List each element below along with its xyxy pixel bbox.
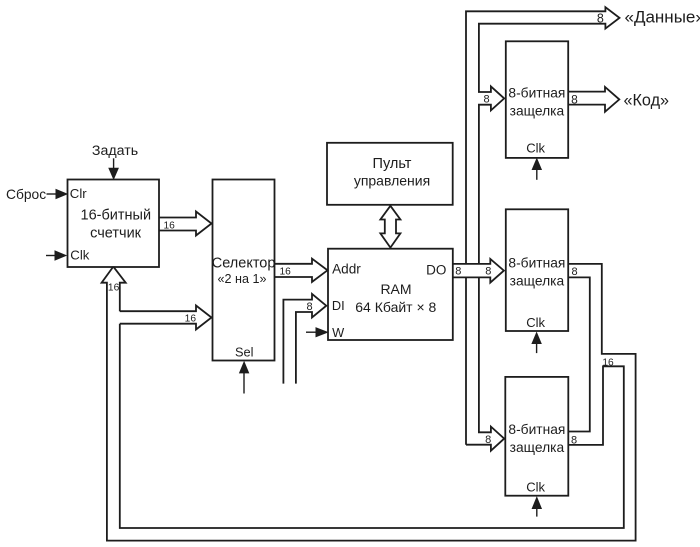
arrow Clk up into top latch <box>536 169 538 180</box>
svg-text:16: 16 <box>164 220 176 231</box>
svg-text:W: W <box>332 325 345 340</box>
bus selector to RAM Addr (16) <box>275 259 328 282</box>
svg-text:64 Кбайт × 8: 64 Кбайт × 8 <box>355 299 436 315</box>
svg-text:8: 8 <box>306 301 312 313</box>
svg-text:защелка: защелка <box>510 104 565 119</box>
bus feedback to selector (16) <box>120 306 212 330</box>
svg-text:16: 16 <box>108 283 120 294</box>
svg-text:16: 16 <box>280 267 292 278</box>
wire outer: counter up-arrow left side, bottom bus, right bus outer <box>102 264 636 541</box>
svg-text:8: 8 <box>571 266 577 278</box>
svg-text:8: 8 <box>485 434 491 446</box>
wire vertical distribution bus left side <box>466 7 620 445</box>
svg-text:Сброс: Сброс <box>6 187 46 202</box>
svg-text:«2 на 1»: «2 на 1» <box>218 272 267 286</box>
svg-text:Clk: Clk <box>526 480 545 495</box>
svg-text:8: 8 <box>485 266 491 278</box>
svg-text:8: 8 <box>571 93 578 107</box>
svg-text:Addr: Addr <box>332 261 361 276</box>
svg-text:Пульт: Пульт <box>373 156 412 172</box>
svg-text:Clr: Clr <box>70 186 87 201</box>
svg-text:Задать: Задать <box>92 143 138 159</box>
svg-text:Clk: Clk <box>70 247 89 262</box>
bus RAM DO to middle latch input (8) <box>453 259 504 283</box>
counter box (16-битный счетчик) <box>68 180 160 268</box>
latch box U3 (top 8-битная защелка) <box>506 41 568 158</box>
svg-text:«Данные»: «Данные» <box>625 7 700 26</box>
svg-text:Sel: Sel <box>235 344 254 359</box>
svg-text:8: 8 <box>597 11 604 25</box>
bus top latch output to «Код» (8) <box>568 87 619 112</box>
bidirectional hollow arrow between control panel and RAM <box>380 206 400 248</box>
svg-text:16: 16 <box>185 314 197 325</box>
svg-text:16-битный: 16-битный <box>81 208 152 224</box>
RAM box <box>328 249 453 340</box>
svg-text:8-битная: 8-битная <box>508 256 565 271</box>
svg-text:Clk: Clk <box>526 315 545 330</box>
arrow Сброс into Clr <box>47 193 58 195</box>
arrow Sel up into selector <box>243 372 245 394</box>
svg-text:DI: DI <box>332 298 345 313</box>
svg-text:8-битная: 8-битная <box>508 86 565 101</box>
arrow Clk up into bottom latch <box>536 508 538 517</box>
svg-text:защелка: защелка <box>510 440 565 455</box>
svg-text:Clk: Clk <box>526 141 545 156</box>
svg-text:8: 8 <box>571 435 577 447</box>
arrow Clk up into middle latch <box>536 343 538 353</box>
svg-text:8-битная: 8-битная <box>508 422 565 437</box>
svg-text:RAM: RAM <box>380 281 411 297</box>
svg-text:8: 8 <box>455 266 461 278</box>
arrow into RAM W <box>306 331 317 333</box>
latch box U4 (middle 8-битная защелка) <box>506 209 568 331</box>
svg-text:защелка: защелка <box>510 274 565 289</box>
svg-text:DO: DO <box>426 263 446 278</box>
wire vertical distribution bus right side to bottom latch input <box>466 277 504 450</box>
svg-text:«Код»: «Код» <box>624 91 670 109</box>
wire middle-latch lower output joining bottom latch upper output <box>568 277 590 431</box>
bus counter to selector (16) <box>159 212 212 236</box>
svg-text:Селектор: Селектор <box>212 256 276 272</box>
bus DI into RAM (8) <box>283 294 326 384</box>
svg-text:8: 8 <box>484 93 490 105</box>
svg-text:управления: управления <box>354 173 430 189</box>
latch box U5 (bottom 8-битная защелка) <box>505 377 568 496</box>
control panel box (Пульт управления) <box>327 143 453 205</box>
selector box (Селектор «2 на 1») <box>213 180 275 361</box>
svg-text:16: 16 <box>602 357 614 368</box>
svg-text:счетчик: счетчик <box>90 225 142 241</box>
wire inner: counter up-arrow right side down to inner bottom bus and up right side <box>113 267 624 528</box>
arrow Задать into counter top <box>113 158 115 169</box>
arrow into counter Clk <box>46 255 56 257</box>
